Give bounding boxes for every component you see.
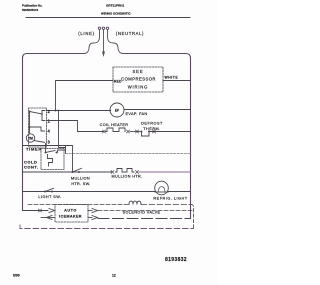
cold control contact dots	[45, 152, 47, 154]
arm link to contact 1	[42, 114, 45, 121]
cold control switch arm	[46, 151, 56, 153]
wire through lamp	[155, 191, 168, 193]
solenoid valve coil	[129, 201, 141, 204]
wire to defrost therm	[130, 131, 140, 133]
svg-text:(NEUTRAL): (NEUTRAL)	[116, 31, 144, 36]
light switch row	[23, 191, 156, 193]
branch to contact 4	[30, 127, 45, 131]
wire WHITE from compressor to right bus	[163, 80, 191, 82]
power cord plug	[84, 27, 123, 53]
TM to contact 3	[34, 141, 44, 143]
svg-text:8193832: 8193832	[165, 257, 187, 263]
timer neutral long wire	[66, 153, 191, 155]
svg-text:LIGHT SW.: LIGHT SW.	[38, 195, 61, 199]
svg-text:EVAP. FAN: EVAP. FAN	[126, 112, 148, 116]
branch to cold control	[58, 146, 66, 153]
svg-text:CONT.: CONT.	[24, 165, 39, 170]
svg-text:THERM.: THERM.	[143, 127, 161, 131]
main loop wire: top, left bus, right bus	[23, 54, 191, 219]
mullion heater connector right	[136, 171, 139, 174]
icemaker feed wire from left bus	[23, 210, 49, 212]
icemaker right dashed wire 2 to neutral bus	[98, 218, 186, 220]
svg-text:HTR. SW.: HTR. SW.	[71, 182, 90, 186]
evap fan motor EF	[110, 103, 124, 117]
timer left vertical to motor	[29, 112, 31, 134]
terminal 1 wire to defrost heater	[46, 121, 103, 132]
icemaker right wires	[88, 210, 92, 212]
svg-text:MULLION: MULLION	[71, 177, 90, 181]
dashed outline right corner	[191, 205, 194, 229]
mullion heater switch row	[23, 171, 113, 173]
svg-text:REFRIG. LIGHT: REFRIG. LIGHT	[153, 197, 187, 201]
svg-text:COMPRESSOR: COMPRESSOR	[121, 77, 156, 82]
cold control to timer	[45, 144, 47, 153]
coil heater element	[107, 128, 125, 132]
svg-text:6/99: 6/99	[13, 273, 20, 277]
timer terminal labels 2 1 4 3	[48, 109, 51, 145]
svg-text:Publication No.: Publication No.	[22, 4, 43, 8]
svg-text:(LINE): (LINE)	[78, 31, 95, 36]
junction at EF inlet	[109, 110, 111, 112]
header rule	[26, 17, 190, 19]
lamp filament	[158, 187, 165, 192]
wire lamp to right bus	[168, 191, 190, 193]
timer switch arm	[30, 112, 43, 115]
defrost timer box (dashed)	[29, 108, 47, 147]
svg-text:AUTO: AUTO	[64, 208, 77, 212]
light switch	[44, 191, 46, 193]
mullion heater switch	[72, 171, 74, 173]
coil heater connector right	[127, 130, 130, 133]
header publication text	[22, 4, 131, 16]
arm link to contact 2	[42, 111, 45, 115]
wire EF to right bus	[124, 109, 191, 111]
cold control box	[41, 149, 64, 170]
svg-text:12: 12	[112, 273, 116, 277]
coil heater connector left	[103, 130, 106, 133]
vertical from fan junction down to neutral run	[59, 111, 66, 154]
svg-text:SEE: SEE	[132, 69, 143, 74]
connector	[136, 130, 139, 133]
svg-text:WHITE: WHITE	[165, 76, 179, 80]
svg-text:DEFROST: DEFROST	[141, 122, 163, 126]
svg-text:ICEMAKER: ICEMAKER	[59, 214, 82, 218]
svg-text:GRT21PRH1: GRT21PRH1	[106, 4, 125, 8]
compressor box (dashed)	[113, 67, 163, 92]
wire W1 from left bus to mullion switch drop	[23, 146, 73, 173]
solenoid valve row (dashed wire)	[28, 204, 129, 206]
junction red wire / fan wire	[55, 110, 57, 112]
svg-text:COIL HEATER: COIL HEATER	[100, 123, 129, 127]
auto icemaker box	[55, 205, 88, 223]
bottom cabinet dashed outline	[20, 225, 194, 229]
cold control bellows	[48, 155, 53, 167]
wire to right bus (purple tint)	[139, 171, 191, 173]
svg-text:RED: RED	[114, 79, 122, 83]
svg-text:WIRING: WIRING	[128, 85, 148, 90]
arrow into box	[49, 209, 55, 213]
label SOLENOID VALVE	[122, 207, 162, 216]
timer switch common node	[29, 111, 31, 113]
icemaker left return arrow	[41, 217, 55, 219]
svg-text:TM: TM	[28, 137, 33, 141]
icemaker right dashed wire 1	[98, 210, 194, 212]
svg-text:WIRING SCHEMATIC: WIRING SCHEMATIC	[101, 11, 131, 15]
mullion heater element	[116, 169, 135, 173]
icemaker feed connector	[39, 209, 42, 212]
svg-text:MULLION HTR.: MULLION HTR.	[112, 175, 143, 179]
svg-text:5995205044: 5995205044	[22, 8, 38, 12]
svg-text:SOLENOID VALVE: SOLENOID VALVE	[123, 211, 161, 215]
refrigerator light lamp	[155, 181, 169, 195]
wire RED to compressor	[56, 81, 114, 111]
defrost thermostat	[141, 131, 143, 133]
timer motor TM	[26, 134, 34, 142]
svg-text:TIMER: TIMER	[26, 147, 42, 152]
svg-text:EF: EF	[115, 108, 119, 112]
wire terminal2 to EF	[46, 110, 110, 112]
ground prong arrow	[102, 30, 105, 58]
mullion heater connector left	[111, 171, 114, 174]
